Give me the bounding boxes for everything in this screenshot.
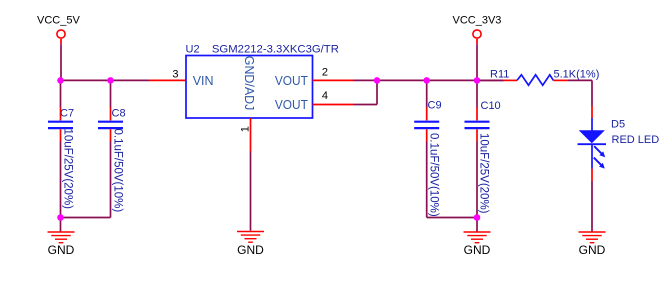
svg-text:2: 2 bbox=[322, 67, 328, 79]
svg-text:GND: GND bbox=[237, 243, 264, 257]
svg-text:VOUT: VOUT bbox=[275, 98, 308, 112]
pin 3 of U2 bbox=[149, 79, 187, 81]
svg-text:GND: GND bbox=[579, 243, 606, 257]
svg-text:VCC_5V: VCC_5V bbox=[37, 14, 80, 26]
junction pin4 joins rail bbox=[374, 77, 381, 84]
junction at left GND bbox=[57, 214, 64, 221]
wire LED vertical top bbox=[591, 80, 593, 106]
wire input rail bbox=[61, 79, 150, 81]
wire VCC_3V3 vertical bbox=[476, 44, 478, 80]
svg-text:GND: GND bbox=[48, 243, 75, 257]
svg-text:U2: U2 bbox=[186, 44, 200, 56]
pin 2 of U2 bbox=[313, 79, 354, 81]
svg-text:4: 4 bbox=[322, 90, 328, 102]
wire output rail bbox=[354, 79, 504, 81]
junction at right GND bbox=[474, 214, 481, 221]
capacitor C7 bbox=[48, 80, 73, 217]
svg-text:10uF/25V(20%): 10uF/25V(20%) bbox=[62, 129, 74, 210]
svg-text:VOUT: VOUT bbox=[275, 74, 308, 88]
wire bottom-left rail bbox=[61, 217, 111, 219]
power port VCC_3V3 bbox=[453, 15, 502, 45]
wire resistor to LED bbox=[568, 79, 592, 81]
svg-text:R11: R11 bbox=[490, 69, 509, 81]
svg-text:VCC_3V3: VCC_3V3 bbox=[453, 15, 502, 27]
junction at C7 top bbox=[57, 77, 64, 84]
svg-text:0.1uF/50V(10%): 0.1uF/50V(10%) bbox=[112, 129, 124, 213]
junction at C10 top bbox=[474, 77, 481, 84]
ground middle bbox=[237, 232, 264, 258]
svg-text:C10: C10 bbox=[481, 100, 501, 112]
op-amp U2 body bbox=[186, 56, 313, 119]
svg-text:GND: GND bbox=[464, 243, 491, 257]
capacitor C8 bbox=[98, 80, 123, 217]
capacitor C10 bbox=[465, 80, 490, 217]
wire to right GND bbox=[476, 218, 478, 232]
svg-text:D5: D5 bbox=[611, 119, 625, 131]
svg-text:1: 1 bbox=[240, 126, 252, 132]
wire to left GND bbox=[60, 218, 62, 232]
wire pin1 to GND bbox=[250, 152, 252, 231]
svg-text:RED LED: RED LED bbox=[612, 134, 660, 146]
pin 4 of U2 bbox=[313, 104, 354, 106]
wire VCC_5V vertical bbox=[60, 44, 62, 80]
pin 1 of U2 bbox=[250, 118, 252, 152]
svg-text:SGM2212-3.3XKC3G/TR: SGM2212-3.3XKC3G/TR bbox=[212, 44, 339, 56]
svg-text:VIN: VIN bbox=[193, 74, 214, 88]
capacitor C9 bbox=[414, 80, 439, 217]
svg-text:3: 3 bbox=[172, 69, 178, 81]
svg-text:C8: C8 bbox=[112, 108, 126, 120]
svg-text:10uF/25V(20%): 10uF/25V(20%) bbox=[478, 133, 490, 214]
svg-text:0.1uF/50V(10%): 0.1uF/50V(10%) bbox=[428, 133, 440, 217]
svg-text:5.1K(1%): 5.1K(1%) bbox=[554, 69, 600, 81]
ground left bbox=[48, 232, 75, 257]
svg-text:C9: C9 bbox=[428, 100, 442, 112]
resistor R11 bbox=[503, 75, 567, 85]
junction at C8 top bbox=[107, 77, 114, 84]
wire rail to resistor bbox=[477, 79, 503, 81]
svg-text:GND/ADJ: GND/ADJ bbox=[242, 56, 256, 110]
junction at C9 top bbox=[423, 77, 430, 84]
ground right bbox=[464, 232, 491, 257]
wire pin4 horizontal bbox=[354, 104, 378, 106]
wire pin4 vertical bbox=[376, 80, 378, 104]
svg-text:C7: C7 bbox=[60, 108, 74, 120]
diode D5 bbox=[578, 106, 607, 181]
power port VCC_5V bbox=[37, 14, 80, 44]
wire LED to GND bbox=[591, 181, 593, 232]
ground LED bbox=[579, 232, 606, 257]
wire bottom-right rail bbox=[427, 217, 477, 219]
